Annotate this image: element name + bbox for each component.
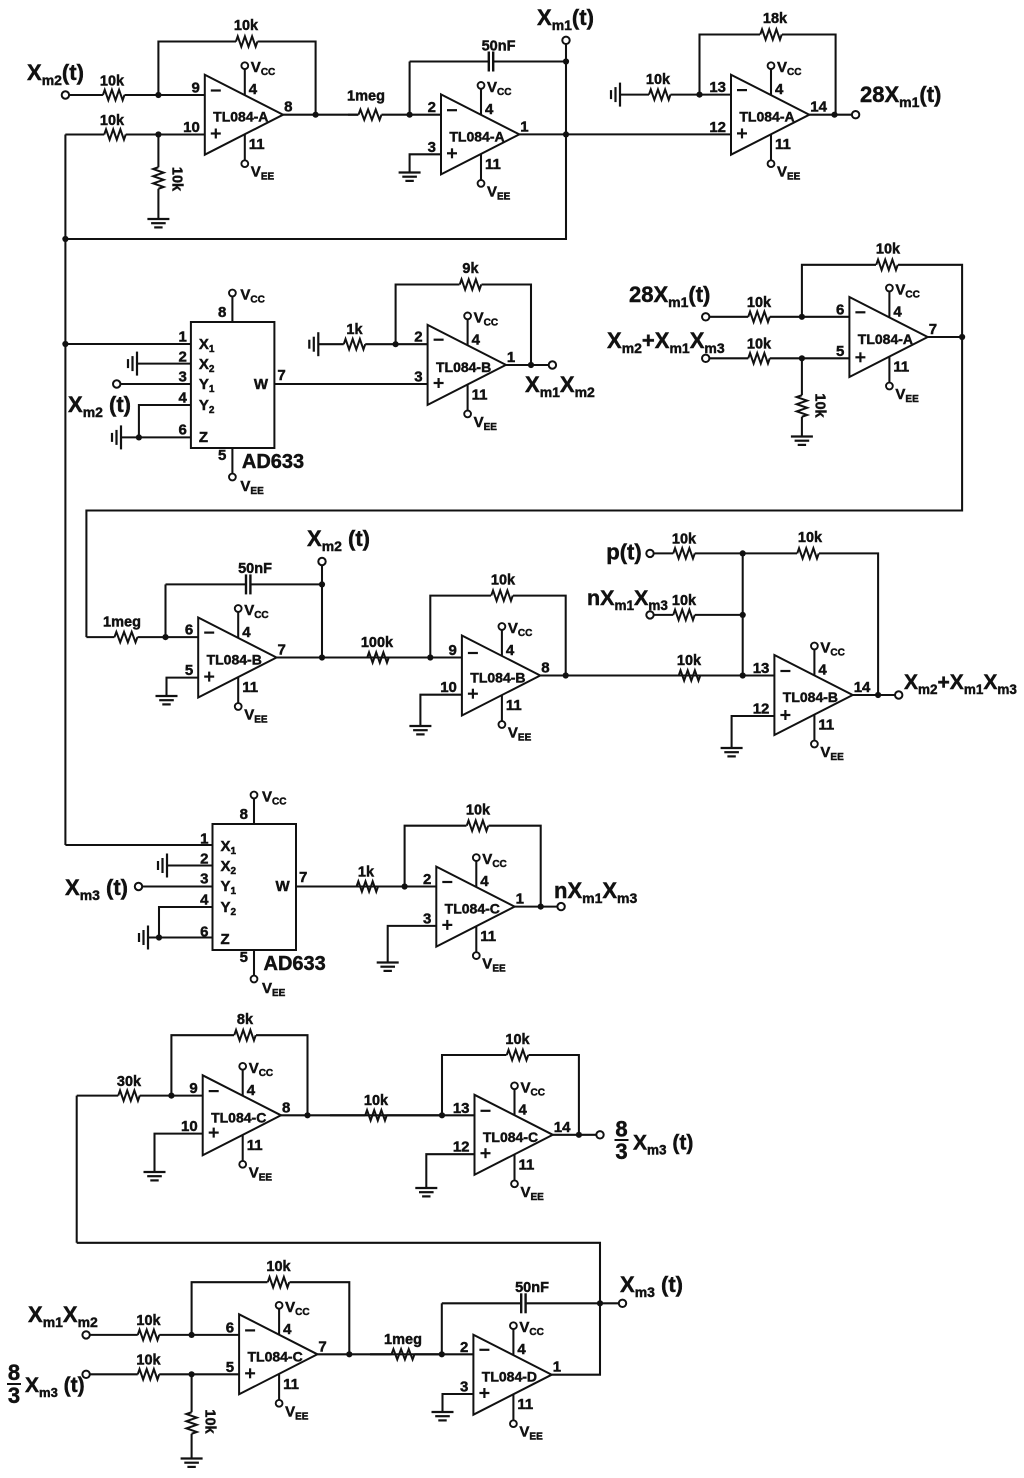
- svg-text:30k: 30k: [117, 1074, 142, 1090]
- wire U5B4 pin 12 to ground: [732, 716, 775, 748]
- wire to U1A3 pin 13: [700, 94, 732, 96]
- capacitor C3 50nF (integrator U10D): [442, 1280, 600, 1354]
- op-amp U1A3 (TL084-A): [709, 75, 827, 155]
- svg-text:4: 4: [818, 662, 827, 679]
- VEE pin 11 of U2A4: [886, 357, 919, 405]
- svg-text:10k: 10k: [136, 1313, 161, 1329]
- VCC pin 4 of U7C2: [239, 1060, 273, 1099]
- wire to U1A pin 9: [158, 94, 204, 96]
- wire terminal to cap node: [565, 44, 567, 62]
- op-amp U9C4 (TL084-C): [226, 1314, 327, 1394]
- wire terminal to U2 pin 3 Y1: [120, 383, 191, 385]
- junction cap / X_m2 terminal: [319, 581, 325, 587]
- svg-text:10k: 10k: [266, 1259, 291, 1275]
- svg-text:10k: 10k: [491, 573, 516, 589]
- wire U1A output: [283, 114, 358, 116]
- svg-text:4: 4: [506, 642, 515, 659]
- junction U6C1 output: [538, 904, 544, 910]
- svg-text:10k: 10k: [798, 530, 823, 546]
- wire U7C2 pin 10 to ground: [155, 1134, 203, 1172]
- ground (input) at R8: [309, 332, 318, 356]
- VCC pin 4 of U8C3: [511, 1079, 545, 1118]
- wire terminal to cap node: [321, 565, 323, 584]
- junction U4B3 pin 9: [427, 654, 433, 660]
- wire U4B3 output to R19: [540, 674, 743, 676]
- svg-text:5: 5: [240, 949, 248, 966]
- resistor R22 10k (feedback U6C1): [405, 803, 541, 907]
- svg-text:W: W: [276, 878, 291, 895]
- node X_m2(t) output label: [307, 526, 370, 554]
- svg-text:TL084-C: TL084-C: [211, 1109, 266, 1125]
- resistor 10k: [709, 337, 802, 364]
- svg-text:TL084-A: TL084-A: [449, 128, 504, 144]
- svg-text:TL084-B: TL084-B: [436, 359, 491, 375]
- wire to U1B' pin 2: [410, 114, 441, 116]
- wire U1A2 pin 3 to ground: [410, 154, 441, 172]
- ground at U3B2 pin 5: [156, 696, 178, 704]
- svg-text:AD633: AD633: [242, 451, 304, 473]
- svg-text:3: 3: [460, 1379, 468, 1396]
- resistor 10k: [69, 74, 158, 101]
- resistor R30 10k (feedback U9C4): [192, 1259, 350, 1354]
- resistor 1meg: [370, 1332, 442, 1360]
- wire to U2A4 pin 5: [802, 357, 850, 359]
- svg-text:14: 14: [554, 1119, 571, 1136]
- resistor 1k: [318, 322, 395, 349]
- VCC pin 4 of U2A4: [886, 282, 920, 321]
- wire X_m1 bus down and left: [65, 134, 566, 239]
- resistor 10k: [65, 113, 158, 140]
- capacitor C2 50nF (integrator U3B2): [166, 561, 323, 637]
- svg-text:14: 14: [810, 99, 827, 116]
- svg-text:1: 1: [516, 891, 524, 908]
- ground (input) at U6 pin 2: [158, 854, 167, 878]
- terminal X_m2(t) output: [318, 558, 325, 565]
- junction Y2/Z at U6: [156, 934, 162, 940]
- svg-text:11: 11: [472, 386, 488, 403]
- svg-text:10k: 10k: [364, 1093, 389, 1109]
- svg-text:8: 8: [240, 806, 248, 823]
- wire X_m3 feedback to row5 input: [77, 1243, 600, 1304]
- op-amp U1A (TL084-A): [183, 75, 292, 155]
- junction U4B3 output: [563, 672, 569, 678]
- svg-text:4: 4: [179, 390, 188, 407]
- VEE pin 11 of U10D: [510, 1394, 543, 1442]
- terminal 28X_m1(t) input: [702, 313, 709, 320]
- ground at U4B3 pin 10: [409, 726, 431, 734]
- svg-text:4: 4: [485, 101, 494, 118]
- terminal X_m2+X_m1X_m3 output: [895, 691, 902, 698]
- svg-text:1meg: 1meg: [347, 89, 385, 105]
- svg-text:1: 1: [507, 349, 515, 366]
- svg-text:5: 5: [226, 1359, 234, 1376]
- terminal 28X_m1(t): [852, 111, 859, 118]
- junction nX node: [740, 612, 746, 618]
- svg-text:11: 11: [506, 697, 522, 714]
- wire ground to U6 pin 6 Z: [148, 936, 213, 938]
- node 28X_m1(t) output label: [860, 82, 941, 110]
- svg-text:50nF: 50nF: [238, 561, 272, 577]
- resistor 10k (vertical): [797, 358, 828, 437]
- VCC pin 4 of U9C4: [276, 1299, 310, 1338]
- svg-text:8: 8: [541, 660, 549, 677]
- svg-text:TL084-B: TL084-B: [783, 689, 838, 705]
- op-amp U8C3 (TL084-C): [453, 1095, 571, 1175]
- VCC pin 4 of U1A3: [768, 59, 802, 98]
- wire to X_m3 terminal: [600, 1302, 619, 1304]
- wire terminal to U6 pin 3 Y1: [142, 885, 213, 887]
- svg-text:AD633: AD633: [264, 953, 326, 975]
- terminal X_m3(t) at U6 pin 3: [135, 883, 142, 890]
- wire to U1A pin 10: [158, 133, 204, 135]
- wire U8C3 pin 12 to ground: [426, 1154, 474, 1188]
- junction U3B2 pin 6: [162, 634, 168, 640]
- svg-text:p(t): p(t): [606, 540, 641, 565]
- resistor R9 9k (feedback U2B): [396, 261, 531, 365]
- ground at U7C2 pin 10: [144, 1172, 166, 1180]
- wire U3B2 pin 5 to ground: [167, 678, 199, 696]
- VCC pin 8 of U2: [218, 287, 265, 323]
- resistor R24 8k (feedback U7C2): [171, 1012, 307, 1115]
- ground (input) at U2 pin 2: [128, 352, 137, 376]
- op-amp U7C2 (TL084-C): [181, 1075, 290, 1155]
- resistor 30k: [77, 1074, 172, 1101]
- svg-text:12: 12: [753, 701, 770, 718]
- terminal nX_m1X_m3 output: [557, 903, 564, 910]
- VCC pin 4 of U1A2: [478, 79, 512, 118]
- svg-text:8: 8: [284, 99, 292, 116]
- VEE pin 11 of U1A2: [478, 154, 511, 202]
- wire U1A2 output to U1A3 pin 12: [519, 133, 731, 135]
- svg-text:3: 3: [8, 1383, 20, 1408]
- VEE pin 11 of U1A3: [768, 134, 801, 182]
- junction U7C2 pin 9: [168, 1093, 174, 1099]
- svg-text:10k: 10k: [677, 653, 702, 669]
- svg-text:10k: 10k: [100, 113, 125, 129]
- svg-text:11: 11: [818, 717, 834, 734]
- svg-text:7: 7: [318, 1338, 326, 1355]
- junction U8C3 pin 13: [439, 1112, 445, 1118]
- svg-text:11: 11: [517, 1396, 533, 1413]
- op-amp U1A2 (TL084-A): [428, 94, 529, 174]
- terminal p(t): [646, 550, 653, 557]
- wire U2A4 output loop to integrator input: [86, 337, 962, 637]
- svg-text:10k: 10k: [876, 242, 901, 258]
- resistor R16 10k (feedback U4B3): [430, 573, 565, 676]
- svg-text:11: 11: [249, 136, 265, 153]
- VCC pin 4 of U4B3: [499, 620, 533, 659]
- resistor 100k: [340, 635, 430, 663]
- wire to U5B4 pin 13: [743, 674, 775, 676]
- op-amp U4B3 (TL084-B): [440, 636, 549, 716]
- resistor 1meg: [86, 615, 165, 643]
- wire to U10D pin 2: [442, 1353, 474, 1355]
- svg-text:10k: 10k: [812, 393, 828, 418]
- wire to U7C2 pin 9: [171, 1095, 202, 1097]
- wire bus to U2 pin 1 X1: [65, 343, 190, 345]
- wire to U8C3 pin 13: [442, 1114, 475, 1116]
- svg-text:Z: Z: [199, 429, 208, 446]
- resistor R13 10k (feedback U2A4): [802, 242, 962, 338]
- svg-text:12: 12: [453, 1139, 470, 1156]
- wire ground to U2 pin 6 Z: [121, 436, 191, 438]
- wire U6 W output to R21: [296, 885, 436, 887]
- VCC pin 4 of U1A: [241, 59, 275, 98]
- svg-text:9: 9: [449, 642, 457, 659]
- svg-text:TL084-D: TL084-D: [482, 1369, 537, 1385]
- wire cap node to output: [321, 584, 323, 657]
- svg-text:1: 1: [553, 1359, 561, 1376]
- resistor R26 10k (feedback U8C3): [442, 1032, 579, 1135]
- svg-text:10k: 10k: [672, 532, 697, 548]
- VEE pin 11 of U2B: [464, 385, 497, 433]
- svg-text:TL084-C: TL084-C: [483, 1129, 538, 1145]
- svg-text:4: 4: [242, 624, 251, 641]
- wire U2 W output to U2B pin 3: [274, 383, 427, 385]
- op-amp U10D (TL084-D): [460, 1335, 561, 1415]
- svg-text:TL084-B: TL084-B: [207, 652, 262, 668]
- ground below R29: [181, 1459, 203, 1467]
- junction output down-branch: [563, 131, 569, 137]
- terminal X_m1(t): [562, 37, 569, 44]
- junction bus to AD633 X1: [62, 341, 68, 347]
- svg-text:2: 2: [423, 871, 431, 888]
- node X_m3(t) output label: [620, 1272, 683, 1300]
- svg-text:8: 8: [218, 304, 226, 321]
- svg-text:10k: 10k: [466, 803, 491, 819]
- op-amp U5B4 (TL084-B): [753, 655, 871, 735]
- svg-text:2: 2: [460, 1339, 468, 1356]
- wire to U4B3 pin 9: [430, 656, 462, 658]
- svg-text:13: 13: [453, 1100, 470, 1117]
- wire U6C1 output: [515, 906, 558, 908]
- resistor 1k: [330, 865, 405, 892]
- svg-text:10: 10: [181, 1118, 198, 1135]
- svg-text:1: 1: [179, 329, 187, 346]
- junction Y2/Z: [136, 434, 142, 440]
- ground at U5B4 pin 12: [721, 748, 743, 756]
- svg-text:Z: Z: [221, 931, 230, 948]
- terminal X_m1X_m2: [549, 361, 556, 368]
- wire left vertical bus: [64, 135, 66, 846]
- node p(t) input label: [606, 540, 641, 565]
- wire summing node vertical: [742, 553, 744, 675]
- junction integrator cap branch: [407, 112, 413, 118]
- VEE pin 11 of U8C3: [511, 1154, 544, 1202]
- junction U10D pin 2: [439, 1351, 445, 1357]
- junction U1A3 output: [831, 112, 837, 118]
- junction U9C4 pin 5: [189, 1371, 195, 1377]
- wire U10D output up to X_m3 node: [552, 1303, 600, 1374]
- svg-text:10k: 10k: [169, 167, 185, 192]
- resistor 10k: [620, 72, 700, 100]
- svg-text:7: 7: [929, 321, 937, 338]
- svg-text:8: 8: [282, 1099, 290, 1116]
- node nX_m1X_m3 output label: [554, 878, 637, 906]
- wire to U9C4 pin 6: [192, 1334, 240, 1336]
- wire U6 pin 4 Y2 to Z node: [159, 907, 213, 938]
- junction U7C2 output: [304, 1112, 310, 1118]
- VCC pin 4 of U5B4: [811, 640, 845, 679]
- svg-text:TL084-A: TL084-A: [739, 109, 794, 125]
- resistor 10k: [709, 295, 802, 322]
- svg-text:4: 4: [247, 1082, 256, 1099]
- svg-text:3: 3: [179, 369, 187, 386]
- wire U9C4 output to R31: [317, 1353, 441, 1355]
- op-amp U3B2 (TL084-B): [185, 618, 286, 698]
- junction U2A4 pin 5: [799, 355, 805, 361]
- junction summing node: [740, 672, 746, 678]
- svg-text:6: 6: [185, 622, 193, 639]
- svg-text:3: 3: [414, 369, 422, 386]
- svg-text:5: 5: [836, 343, 844, 360]
- op-amp U2A4 (TL084-A): [836, 297, 937, 377]
- svg-text:10k: 10k: [505, 1032, 530, 1048]
- ground (input) at U2 pin 6: [112, 425, 121, 449]
- VEE pin 11 of U1A: [241, 134, 274, 182]
- svg-text:1: 1: [520, 118, 528, 135]
- svg-text:3: 3: [615, 1139, 627, 1164]
- svg-text:1k: 1k: [346, 322, 363, 338]
- resistor 10k (vertical): [153, 135, 184, 220]
- node X_m3(t) label at U6 Y1: [65, 875, 128, 903]
- svg-text:4: 4: [200, 892, 209, 909]
- multiplier U2 (AD633): [179, 322, 286, 448]
- svg-text:4: 4: [517, 1341, 526, 1358]
- resistor 10k: [620, 653, 743, 681]
- VEE pin 5 of U6: [240, 949, 286, 999]
- wire U1A3 output: [809, 114, 852, 116]
- svg-text:11: 11: [247, 1137, 263, 1154]
- terminal 8/3 X_m3(t) input: [82, 1371, 89, 1378]
- label U2 AD633: [242, 451, 304, 473]
- terminal X_m2(t) input: [62, 91, 69, 98]
- wire U5B4 output: [853, 694, 895, 696]
- svg-text:8: 8: [8, 1360, 20, 1385]
- wire U3B2 output to R15: [277, 656, 431, 658]
- svg-text:6: 6: [226, 1319, 234, 1336]
- svg-text:10k: 10k: [747, 337, 772, 353]
- op-amp U6C1 (TL084-C): [423, 867, 524, 947]
- resistor 1meg: [347, 89, 410, 120]
- svg-text:14: 14: [854, 679, 871, 696]
- resistor 10k: [654, 593, 743, 620]
- svg-text:TL084-A: TL084-A: [213, 109, 268, 125]
- svg-text:10: 10: [440, 679, 457, 696]
- resistor 10k: [90, 1353, 192, 1380]
- ground at U6C1 pin 3: [377, 963, 399, 971]
- ground below R4: [147, 219, 169, 227]
- wire U2B output: [506, 364, 549, 366]
- svg-text:10k: 10k: [136, 1353, 161, 1369]
- svg-text:11: 11: [893, 359, 909, 376]
- node 8/3 X_m3(t) input label: [7, 1360, 85, 1408]
- VEE pin 11 of U4B3: [499, 695, 532, 743]
- resistor R2 10k (feedback U1A): [158, 18, 315, 115]
- svg-text:50nF: 50nF: [515, 1280, 549, 1296]
- node X_m2+X_m1X_m3 input label: [607, 328, 725, 356]
- wire U8C3 output: [553, 1134, 596, 1136]
- VEE pin 11 of U3B2: [235, 677, 268, 725]
- svg-text:50nF: 50nF: [482, 39, 516, 55]
- wire U10D pin 3 to ground: [443, 1394, 474, 1412]
- svg-text:1meg: 1meg: [384, 1332, 422, 1348]
- svg-text:7: 7: [278, 642, 286, 659]
- svg-text:11: 11: [485, 156, 501, 173]
- VCC pin 4 of U2B: [464, 309, 498, 348]
- terminal X_m2(t) at U2 pin 3: [113, 380, 120, 387]
- svg-text:TL084-C: TL084-C: [247, 1348, 302, 1364]
- svg-text:6: 6: [836, 301, 844, 318]
- wire U4B3 pin 10 to ground: [420, 695, 462, 726]
- VEE pin 11 of U6C1: [473, 926, 506, 974]
- svg-text:11: 11: [480, 928, 496, 945]
- wire X_m3 feedback left vertical: [76, 1096, 78, 1243]
- svg-text:10k: 10k: [202, 1409, 218, 1434]
- capacitor C1 50nF (integrator U1A2): [410, 39, 566, 115]
- node 28X_m1(t) input label: [629, 282, 710, 310]
- svg-text:1meg: 1meg: [103, 615, 141, 631]
- svg-text:13: 13: [753, 660, 770, 677]
- ground at U1A2 pin 3: [399, 173, 421, 181]
- junction U6C1 pin 2: [402, 883, 408, 889]
- svg-text:4: 4: [249, 81, 258, 98]
- VEE pin 5 of U2: [218, 447, 264, 497]
- svg-text:TL084-B: TL084-B: [470, 670, 525, 686]
- svg-text:2: 2: [414, 329, 422, 346]
- wire U2 pin 4 Y2 to Z node: [139, 405, 191, 437]
- svg-text:9: 9: [191, 80, 199, 97]
- svg-text:3: 3: [423, 910, 431, 927]
- VEE pin 11 of U7C2: [239, 1135, 272, 1183]
- svg-text:100k: 100k: [361, 635, 394, 651]
- svg-text:7: 7: [299, 869, 307, 886]
- junction U1A3 pin 13: [696, 92, 702, 98]
- junction U2B output: [528, 362, 534, 368]
- svg-text:TL084-C: TL084-C: [445, 901, 500, 917]
- svg-text:4: 4: [775, 81, 784, 98]
- op-amp U2B (TL084-B): [414, 325, 515, 405]
- junction X_m3 node: [597, 1300, 603, 1306]
- node X_m1(t) output label: [537, 5, 594, 33]
- junction p(t) node: [740, 550, 746, 556]
- svg-text:3: 3: [428, 139, 436, 156]
- svg-text:12: 12: [709, 119, 726, 136]
- svg-text:18k: 18k: [763, 11, 788, 27]
- label U6 AD633: [264, 953, 326, 975]
- ground at U8C3 pin 12: [415, 1188, 437, 1196]
- junction U9C4 output: [346, 1351, 352, 1357]
- svg-text:TL084-A: TL084-A: [858, 331, 913, 347]
- svg-text:4: 4: [472, 331, 481, 348]
- node X_m1X_m2 input label: [28, 1302, 98, 1330]
- svg-text:4: 4: [480, 873, 489, 890]
- wire to U9C4 pin 5: [192, 1373, 240, 1375]
- ground (input) at U6 pin 6: [139, 926, 148, 950]
- svg-text:10: 10: [183, 119, 200, 136]
- node nX_m1X_m3 input label: [587, 586, 668, 613]
- node X_m1X_m2 output label: [525, 372, 595, 400]
- svg-text:11: 11: [242, 679, 258, 696]
- svg-text:9: 9: [189, 1080, 197, 1097]
- svg-text:4: 4: [893, 304, 902, 321]
- VEE pin 11 of U5B4: [811, 715, 844, 763]
- svg-text:7: 7: [277, 367, 285, 384]
- junction node at U1A pin 10: [155, 131, 161, 137]
- wire cap node down to output: [565, 62, 567, 135]
- node X_m2(t) input label: [27, 60, 84, 88]
- wire to U2A4 pin 6: [802, 316, 850, 318]
